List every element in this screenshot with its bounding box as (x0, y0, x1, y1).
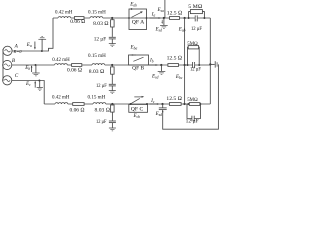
svg-text:Ebc: Ebc (175, 74, 183, 80)
svg-text:12 µF: 12 µF (96, 119, 107, 125)
svg-text:5MΩ: 5MΩ (187, 97, 198, 103)
breaker QF A (128, 8, 147, 29)
svg-text:Esd: Esd (155, 27, 163, 33)
breaker QF C (129, 96, 148, 112)
svg-text:Ia: Ia (151, 11, 156, 17)
svg-text:12 µF: 12 µF (96, 83, 107, 89)
resistor 12.5 B (168, 64, 179, 67)
capacitor 12uF B inline (193, 62, 195, 68)
wire phase C main (44, 103, 210, 105)
svg-text:QF A: QF A (132, 20, 145, 26)
ground at node A measure (160, 18, 168, 28)
inductor L1 A 0.42mH (58, 17, 71, 18)
resistor R1 B 0.06 (72, 64, 82, 67)
ground shunt C (109, 128, 116, 131)
node A source (41, 50, 43, 52)
node A shunt junction (111, 17, 113, 19)
ground at node B measure (158, 65, 166, 74)
resistor R1 C 0.06 (73, 103, 84, 106)
resistor 5M A loop (188, 10, 206, 19)
ground inverted at node A (38, 36, 46, 39)
arrow Ic (150, 103, 160, 105)
svg-text:0.42 mH: 0.42 mH (52, 57, 69, 63)
node C source (38, 80, 40, 82)
capacitor at node C measure (159, 104, 167, 110)
svg-text:8.03 Ω: 8.03 Ω (95, 107, 111, 113)
arrow Ea (34, 42, 36, 50)
wire phase C from source to drop (12, 81, 44, 105)
node B shunt junction (111, 64, 113, 66)
svg-text:Ib: Ib (149, 57, 154, 63)
svg-text:12 µF: 12 µF (186, 118, 199, 124)
svg-text:Eb: Eb (24, 65, 30, 71)
node B source (35, 64, 37, 66)
resistor shunt C 8.03 (111, 104, 115, 121)
resistor shunt A 8.03 (111, 18, 115, 37)
svg-text:12 µF: 12 µF (190, 66, 201, 72)
capacitor 12uF C loop (187, 104, 201, 121)
wire phase A from source to riser (12, 18, 53, 51)
svg-text:12 µF: 12 µF (191, 26, 202, 32)
resistor 5M C inline (189, 103, 200, 106)
svg-text:0.06 Ω: 0.06 Ω (67, 67, 82, 73)
svg-text:0.06 Ω: 0.06 Ω (70, 19, 85, 25)
svg-text:0.15 mH: 0.15 mH (88, 9, 106, 15)
arrow Eb (31, 65, 33, 72)
svg-text:0.42 mH: 0.42 mH (52, 95, 69, 101)
node C right (183, 103, 185, 105)
svg-text:Eba: Eba (130, 45, 138, 51)
svg-text:Ecb: Ecb (133, 113, 141, 119)
resistor 5M B loop (187, 46, 201, 66)
svg-text:0.06 Ω: 0.06 Ω (70, 108, 85, 114)
ac source B (3, 60, 12, 69)
wire return rail (163, 64, 219, 129)
node B right (184, 64, 186, 66)
resistor 12.5 C (169, 103, 181, 106)
svg-text:0.15 mH: 0.15 mH (88, 95, 106, 101)
svg-text:8.03 Ω: 8.03 Ω (93, 21, 109, 27)
resistor shunt B 8.03 (111, 65, 115, 84)
svg-text:Esd: Esd (155, 111, 163, 117)
node A measure (163, 17, 165, 19)
node A right (184, 17, 186, 19)
arrow Ia (150, 17, 162, 19)
ac source C (3, 76, 12, 85)
svg-text:B: B (12, 58, 16, 64)
svg-text:QF B: QF B (132, 65, 145, 71)
wire Ebc probe (184, 65, 186, 104)
svg-text:R=0: R=0 (13, 49, 23, 54)
wire Eab probe (184, 18, 186, 65)
arrow Ib (149, 64, 158, 66)
svg-text:Ea: Ea (26, 42, 32, 48)
wire phase B main (12, 64, 211, 66)
svg-text:Eab: Eab (129, 2, 137, 8)
svg-text:0.42 mH: 0.42 mH (55, 9, 72, 15)
inductor L1 B 0.42mH (55, 64, 68, 65)
node B measure (160, 64, 162, 66)
wire phase A main (53, 17, 210, 19)
svg-text:Esd: Esd (151, 74, 159, 80)
svg-text:Ic: Ic (150, 98, 155, 104)
node C measure (161, 103, 163, 105)
svg-text:12.5 Ω: 12.5 Ω (166, 96, 182, 102)
node bus neutral (209, 63, 211, 65)
node C shunt junction (111, 103, 113, 105)
resistor 12.5 A (170, 17, 180, 20)
svg-text:12.5 Ω: 12.5 Ω (167, 56, 183, 62)
inductor L1 C 0.42mH (55, 103, 68, 104)
arrow Ecd (162, 110, 164, 112)
ground shunt A (109, 44, 116, 47)
breaker QF B (129, 54, 149, 65)
wire Esa probe (164, 0, 166, 18)
resistor R1 A 0.06 (74, 17, 84, 20)
svg-text:0.15 mH: 0.15 mH (88, 53, 106, 59)
svg-text:5MΩ: 5MΩ (187, 41, 198, 47)
svg-text:12 µF: 12 µF (94, 36, 107, 42)
svg-text:8.03 Ω: 8.03 Ω (89, 69, 105, 75)
svg-text:QF C: QF C (131, 107, 144, 113)
capacitor shunt B 12uF (109, 84, 116, 90)
arrow Ec (34, 81, 36, 88)
ground shunt B (109, 91, 116, 94)
left source bus wire (2, 49, 4, 81)
capacitor neutral (210, 61, 217, 67)
svg-text:Esa: Esa (157, 7, 165, 13)
svg-text:C: C (15, 73, 19, 79)
capacitor shunt C 12uF (109, 121, 116, 128)
svg-text:Ec: Ec (25, 81, 31, 87)
ground at node C (37, 88, 43, 91)
capacitor 12uF A inline (195, 15, 197, 21)
wire bus right (209, 18, 211, 104)
inductor L2 A 0.15mH (90, 17, 103, 18)
svg-text:12.5 Ω: 12.5 Ω (167, 10, 183, 16)
ac source A (3, 46, 12, 55)
capacitor shunt A 12uF (109, 37, 116, 43)
inductor L2 C 0.15mH (93, 103, 106, 104)
svg-text:5 MΩ: 5 MΩ (188, 4, 202, 10)
ground at node B (32, 73, 40, 76)
inductor L2 B 0.15mH (92, 64, 105, 65)
